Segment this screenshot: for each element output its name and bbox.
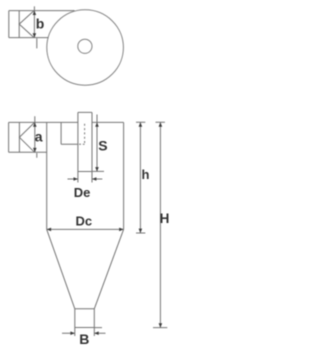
arrow b top bbox=[33, 11, 37, 15]
inlet duct rectangle (top view) bbox=[9, 11, 75, 38]
svg-text:S: S bbox=[98, 138, 107, 154]
dimension line Dc / cone start bbox=[47, 228, 124, 230]
cone left side bbox=[47, 229, 75, 308]
dimension line De bbox=[68, 178, 103, 180]
top edge of body and inlet (front view) bbox=[9, 121, 124, 123]
svg-text:b: b bbox=[36, 15, 45, 31]
cyclone body circle (top view) bbox=[47, 10, 124, 85]
inlet duct (front view) bbox=[9, 122, 47, 152]
arrow B left bbox=[70, 331, 74, 335]
arrow h bottom bbox=[139, 229, 143, 233]
arrow a bottom bbox=[33, 148, 37, 152]
arrow S bottom bbox=[95, 167, 99, 171]
arrow B right bbox=[94, 331, 98, 335]
arrow De left bbox=[74, 177, 78, 181]
inlet inner step bbox=[61, 122, 78, 144]
svg-text:H: H bbox=[160, 211, 170, 226]
arrow H bottom bbox=[159, 323, 163, 327]
arrow De right bbox=[92, 177, 96, 181]
dimension line B bbox=[62, 332, 106, 334]
extension stub at outlet bottom right bbox=[94, 327, 102, 329]
arrow Dc left bbox=[47, 228, 51, 232]
arrow Dc right bbox=[119, 228, 123, 232]
dimension De extension lines bbox=[78, 172, 92, 183]
vortex finder circle (top view) bbox=[78, 39, 92, 53]
svg-text:h: h bbox=[142, 167, 150, 182]
arrow a top bbox=[33, 122, 37, 126]
hidden edge dashed bbox=[84, 124, 86, 145]
arrow H top bbox=[159, 122, 163, 126]
dimension B extension lines bbox=[75, 328, 95, 337]
svg-text:a: a bbox=[35, 129, 43, 145]
hidden edge dashed horizontal bbox=[79, 143, 85, 145]
svg-text:B: B bbox=[79, 331, 89, 347]
inlet chevron (front view) bbox=[19, 122, 34, 152]
inlet chevron (top view) bbox=[19, 11, 34, 38]
vortex finder tube (front view) bbox=[78, 112, 92, 171]
dimension line b bbox=[34, 6, 36, 48]
dimension line H bbox=[153, 122, 167, 327]
dust outlet box bbox=[75, 309, 95, 328]
body cylinder walls (front view) bbox=[47, 122, 124, 229]
dimension line h bbox=[136, 122, 145, 233]
arrow h top bbox=[139, 122, 143, 126]
cone right side bbox=[94, 229, 123, 308]
dimension line S bbox=[92, 115, 104, 172]
svg-text:Dc: Dc bbox=[76, 213, 93, 228]
arrow b bottom bbox=[33, 33, 37, 37]
arrow S top bbox=[95, 122, 99, 126]
svg-text:De: De bbox=[74, 185, 91, 200]
dimension line a bbox=[35, 116, 37, 158]
